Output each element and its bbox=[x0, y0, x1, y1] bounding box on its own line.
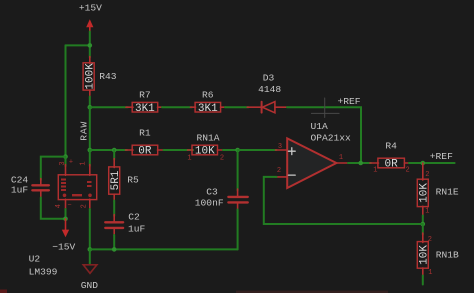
wire row3 to R1 bbox=[90, 149, 127, 151]
wire bottom row bbox=[90, 248, 238, 250]
svg-text:2: 2 bbox=[405, 167, 409, 175]
svg-text:R5: R5 bbox=[127, 175, 139, 186]
node C3 junction bbox=[235, 148, 240, 153]
wire R5 to C2 bbox=[113, 201, 115, 217]
svg-text:R7: R7 bbox=[139, 89, 151, 100]
wire left vertical branch bbox=[65, 45, 67, 156]
wire R1 to RN1A bbox=[164, 149, 194, 151]
svg-text:+REF: +REF bbox=[338, 96, 361, 107]
wire R6 to D3 bbox=[225, 106, 249, 108]
svg-text:3: 3 bbox=[278, 143, 282, 151]
node bottom-left cut element bbox=[0, 290, 7, 293]
svg-text:D3: D3 bbox=[263, 73, 275, 84]
node output junction bbox=[358, 161, 363, 166]
wire D3 to +REF corner bbox=[287, 107, 361, 163]
svg-text:100K: 100K bbox=[84, 63, 96, 90]
node RAW junction bbox=[88, 105, 93, 110]
wire row2 to R7 bbox=[90, 106, 128, 108]
wire R7 to R6 bbox=[162, 106, 192, 108]
resistor RN1E bbox=[417, 163, 459, 217]
wire top horizontal to left branch bbox=[66, 44, 90, 46]
node feedback junction bbox=[421, 222, 426, 227]
svg-text:R1: R1 bbox=[139, 128, 151, 139]
svg-text:−15V: −15V bbox=[52, 241, 75, 252]
capacitor C2 bbox=[105, 211, 145, 236]
svg-text:OPA21xx: OPA21xx bbox=[311, 133, 352, 144]
svg-text:2: 2 bbox=[425, 171, 429, 179]
node +15V junction bbox=[88, 43, 93, 48]
svg-text:RAW: RAW bbox=[79, 121, 90, 141]
wire C24 top bbox=[41, 157, 66, 180]
svg-text:LM399: LM399 bbox=[29, 267, 58, 278]
svg-text:1: 1 bbox=[428, 269, 432, 277]
resistor R7 bbox=[126, 89, 163, 115]
node -15V junction bbox=[63, 217, 68, 222]
svg-text:1uF: 1uF bbox=[11, 185, 29, 196]
resistor R6 bbox=[191, 89, 227, 115]
svg-text:1: 1 bbox=[187, 155, 191, 163]
resistor R43 bbox=[83, 57, 117, 98]
node RN1E top junction bbox=[421, 161, 426, 166]
svg-text:3: 3 bbox=[59, 161, 67, 165]
wire C2 to bottom row bbox=[113, 235, 115, 249]
svg-text:2: 2 bbox=[428, 236, 432, 244]
IC U2 LM399 bbox=[29, 150, 97, 278]
svg-text:+: + bbox=[69, 159, 73, 167]
capacitor C3 bbox=[195, 150, 248, 249]
node C2 bottom junction bbox=[112, 247, 117, 252]
svg-text:−: − bbox=[67, 202, 71, 210]
resistor R4 bbox=[370, 140, 410, 174]
svg-text:1: 1 bbox=[425, 207, 429, 215]
svg-text:4: 4 bbox=[55, 204, 63, 208]
svg-text:10K: 10K bbox=[419, 245, 431, 265]
wire R43 bottom to row bbox=[89, 97, 91, 108]
svg-text:RN1E: RN1E bbox=[436, 187, 459, 198]
wire op-amp output bbox=[348, 162, 371, 164]
node C24 junction bbox=[63, 154, 68, 159]
svg-text:+REF: +REF bbox=[430, 151, 453, 162]
svg-text:U2: U2 bbox=[29, 254, 41, 265]
capacitor C24 bbox=[11, 175, 49, 199]
power -15V bbox=[52, 219, 75, 253]
wire C24 bottom bbox=[41, 198, 66, 219]
op-amp U1A bbox=[276, 121, 352, 188]
resistor RN1B bbox=[417, 224, 459, 277]
diode D3 bbox=[247, 73, 287, 113]
svg-text:C3: C3 bbox=[206, 187, 218, 198]
svg-text:2: 2 bbox=[81, 204, 89, 208]
ground bbox=[81, 249, 99, 291]
svg-text:10K: 10K bbox=[418, 183, 430, 203]
svg-text:2: 2 bbox=[220, 155, 224, 163]
svg-text:1uF: 1uF bbox=[128, 223, 146, 234]
power +15V bbox=[79, 2, 102, 32]
wire R4 to +REF bbox=[409, 162, 455, 164]
svg-text:+15V: +15V bbox=[79, 2, 102, 13]
svg-text:3K1: 3K1 bbox=[135, 103, 155, 115]
svg-text:5R1: 5R1 bbox=[110, 170, 122, 190]
svg-text:RN1B: RN1B bbox=[436, 250, 459, 261]
svg-text:R6: R6 bbox=[202, 89, 214, 100]
svg-text:100nF: 100nF bbox=[195, 198, 224, 209]
svg-text:GND: GND bbox=[81, 280, 99, 291]
node bottom GND junction bbox=[88, 247, 93, 252]
svg-text:RN1A: RN1A bbox=[197, 132, 220, 143]
resistor R5 bbox=[109, 150, 139, 202]
wire RAW vertical bbox=[89, 107, 91, 150]
wire +15V stem bbox=[89, 32, 91, 58]
node bottom cut text remnant bbox=[236, 291, 388, 293]
resistor R1 bbox=[126, 128, 165, 158]
svg-text:1: 1 bbox=[339, 154, 343, 162]
svg-text:R4: R4 bbox=[385, 140, 397, 151]
svg-text:2: 2 bbox=[277, 167, 281, 175]
svg-text:10K: 10K bbox=[195, 146, 215, 158]
svg-text:0R: 0R bbox=[384, 159, 398, 171]
svg-text:1: 1 bbox=[373, 167, 377, 175]
node anchor crosshair bbox=[311, 98, 339, 118]
svg-text:R43: R43 bbox=[99, 71, 117, 82]
wire RN1B bottom stub bbox=[422, 276, 424, 285]
wire C3 node to op-amp pin3 bbox=[238, 149, 277, 151]
wire feedback bbox=[264, 177, 423, 224]
svg-text:3K1: 3K1 bbox=[198, 103, 218, 115]
node R1 row junction bbox=[88, 148, 93, 153]
svg-text:0R: 0R bbox=[138, 146, 152, 158]
svg-text:4148: 4148 bbox=[258, 84, 281, 95]
svg-text:U1A: U1A bbox=[311, 121, 329, 132]
resistor RN1A bbox=[187, 132, 224, 162]
wire RN1A to C3 node bbox=[223, 149, 238, 151]
svg-text:C2: C2 bbox=[128, 211, 140, 222]
wire RN1E bottom bbox=[422, 216, 424, 225]
svg-text:1: 1 bbox=[80, 161, 88, 165]
node R5 top junction bbox=[112, 148, 117, 153]
